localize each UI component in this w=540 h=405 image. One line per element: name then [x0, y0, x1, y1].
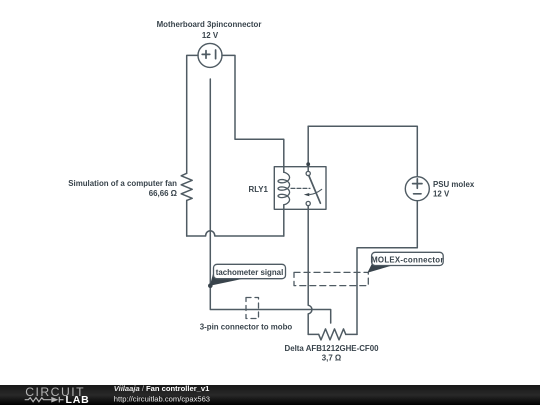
relay RLY1 switch top contact — [306, 171, 310, 175]
svg-text:12 V: 12 V — [433, 189, 450, 198]
svg-text:RLY1: RLY1 — [249, 185, 269, 194]
relay RLY1 switch bottom contact — [306, 201, 310, 205]
svg-text:LAB: LAB — [66, 394, 90, 405]
wire PSU bottom lead — [357, 201, 417, 335]
wire top rail to PSU — [308, 126, 417, 176]
wire bottom horizontal with hop over tach wire — [187, 231, 284, 236]
wire coil bottom lead — [283, 205, 285, 236]
svg-text:PSU molex: PSU molex — [433, 180, 475, 189]
resistor R1 Simulation of a computer fan — [181, 173, 192, 200]
svg-text:Delta AFB1212GHE-CF00: Delta AFB1212GHE-CF00 — [285, 344, 380, 353]
svg-text:Simulation of a computer fan: Simulation of a computer fan — [68, 179, 177, 188]
relay RLY1 switch blade — [309, 176, 321, 204]
logo schematic glyph — [25, 397, 64, 403]
svg-text:Viilaaja / Fan controller_v1: Viilaaja / Fan controller_v1 — [114, 384, 210, 393]
resistor R2 Delta fan — [319, 329, 346, 340]
wire switch top to top rail — [307, 126, 309, 171]
svg-text:http://circuitlab.com/cpax563: http://circuitlab.com/cpax563 — [114, 394, 210, 403]
flag MOLEX-connector — [367, 252, 443, 272]
wire V1 left lead — [187, 55, 198, 173]
wire V1 right lead — [222, 55, 284, 172]
footer bar — [0, 385, 540, 405]
relay RLY1 coil — [278, 172, 290, 205]
dashed box MOLEX-connector — [294, 272, 368, 285]
dashed box 3-pin connector — [246, 298, 259, 319]
relay RLY1 actuation arrow — [304, 189, 322, 196]
svg-text:66,66 Ω: 66,66 Ω — [149, 189, 177, 198]
svg-text:Motherboard 3pinconnector: Motherboard 3pinconnector — [157, 20, 262, 29]
junction dot above relay — [306, 162, 310, 166]
voltage source V2 PSU molex — [405, 177, 429, 201]
svg-text:MOLEX-connector: MOLEX-connector — [371, 255, 444, 264]
node tachometer junction dot — [208, 283, 213, 288]
wire R1 bottom to node — [186, 200, 188, 236]
svg-text:3,7 Ω: 3,7 Ω — [322, 354, 342, 363]
relay RLY1 dashed link — [291, 187, 310, 189]
relay RLY1 box — [274, 167, 326, 210]
flag tachometer signal — [210, 264, 286, 286]
wire tachometer from connector — [210, 79, 330, 323]
svg-text:tachometer signal: tachometer signal — [216, 268, 284, 277]
svg-text:3-pin connector to mobo: 3-pin connector to mobo — [200, 322, 293, 331]
wire switch bottom to fan, hop over tach wire — [308, 206, 312, 335]
voltage source V1 Motherboard 3pinconnector — [198, 43, 222, 67]
svg-text:12 V: 12 V — [202, 31, 219, 40]
wire fan left lead — [308, 333, 319, 335]
wire fan right lead — [346, 333, 357, 335]
